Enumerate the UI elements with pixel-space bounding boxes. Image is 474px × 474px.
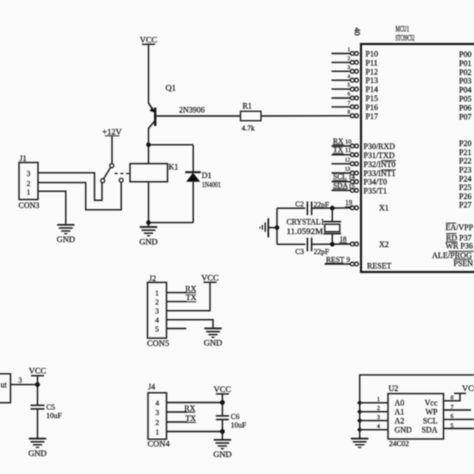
svg-text:CON3: CON3 [19, 201, 40, 210]
svg-text:P34/T0: P34/T0 [364, 178, 388, 187]
svg-text:C2: C2 [295, 200, 304, 209]
MCU pin label WR P36 [446, 242, 473, 251]
wire C5 bottom lead [37, 409, 39, 439]
svg-text:4: 4 [155, 316, 159, 325]
svg-text:3: 3 [377, 415, 380, 421]
svg-text:2N3906: 2N3906 [179, 105, 205, 114]
wire U2 pin 2 [360, 406, 388, 412]
wire crystal top stub [331, 208, 333, 222]
svg-text:2: 2 [348, 56, 351, 62]
svg-text:P14: P14 [366, 85, 378, 94]
ground below relay [139, 223, 157, 247]
MCU pin label P22 [459, 157, 471, 166]
node U2 pin 1 junction [357, 400, 362, 405]
power symbol VCC (J2) [201, 272, 219, 282]
svg-text:Vcc: Vcc [425, 399, 438, 408]
wire U2 pin 1 [360, 397, 388, 403]
MCU pin 1 P10 wire stub [332, 47, 378, 58]
svg-text:P13: P13 [366, 76, 378, 85]
svg-text:P32/INT0: P32/INT0 [364, 160, 396, 169]
svg-text:2: 2 [155, 297, 159, 306]
MCU pin label P03 [459, 77, 471, 86]
switch contact left [101, 179, 105, 183]
wire J2 pin2 TX [167, 301, 187, 303]
connector J4 CON4 [148, 383, 171, 449]
svg-text:WR P36: WR P36 [446, 242, 473, 251]
svg-text:GND: GND [204, 338, 222, 348]
svg-text:P10: P10 [366, 50, 378, 59]
svg-text:P06: P06 [459, 103, 471, 112]
MCU pin label P26 [459, 192, 471, 201]
wire +12V to switch [111, 136, 113, 164]
wire J2 pin1 RX [167, 292, 187, 294]
svg-text:R1: R1 [243, 102, 252, 111]
svg-text:STC89C52: STC89C52 [396, 34, 415, 43]
svg-text:P16: P16 [366, 103, 378, 112]
resistor R1 4.7k [241, 102, 262, 133]
node X2 crystal junction [330, 242, 335, 247]
MCU pin 15 P35/T1 [332, 181, 388, 196]
svg-text:3: 3 [155, 307, 159, 316]
wire J4 pin4 to VCC node [167, 402, 223, 404]
wire C5 top lead [37, 385, 39, 406]
svg-text:A0: A0 [395, 399, 405, 408]
wire D1 top drop [192, 145, 194, 172]
svg-text:C3: C3 [295, 247, 304, 256]
MCU pin label P00 [459, 50, 471, 59]
svg-text:P02: P02 [459, 68, 471, 77]
wire J2 pin3 to VCC [167, 282, 211, 310]
svg-text:14: 14 [349, 174, 356, 181]
svg-text:RX: RX [185, 284, 196, 293]
capacitor C5 10uF [31, 403, 62, 420]
svg-text:A2: A2 [395, 416, 405, 425]
svg-text:5: 5 [348, 83, 351, 89]
svg-text:1: 1 [348, 47, 351, 53]
svg-text:RX: RX [184, 404, 195, 413]
wire J1 pin2 to switch right contact [38, 182, 121, 210]
MCU pin 13 P33/INT1 [332, 167, 397, 178]
MCU pin label P24 [459, 174, 471, 183]
svg-text:VCC: VCC [201, 272, 219, 282]
power symbol VCC (C5) [29, 366, 47, 376]
ground for U2 [351, 439, 368, 448]
svg-text:GND: GND [57, 234, 75, 244]
wire to ground (J4) [221, 432, 223, 440]
svg-text:X2: X2 [379, 240, 389, 249]
MCU pin label P23 [459, 166, 471, 175]
capacitor C2 22pF [295, 200, 329, 216]
MCU pin label P27 [459, 201, 471, 210]
net label RX (J4) [184, 404, 196, 413]
wire C6 top lead [221, 403, 223, 416]
svg-text:CON5: CON5 [147, 338, 169, 348]
wire regulator pin3 to VCC node [11, 376, 38, 384]
switch contact right [119, 178, 123, 182]
wire U2 pin 4 [360, 424, 388, 430]
svg-text:D1: D1 [202, 171, 212, 180]
svg-text:SDA: SDA [421, 425, 437, 434]
wire C2 to X1 [312, 207, 351, 209]
MCU pin label P01 [459, 59, 471, 68]
svg-text:3: 3 [155, 408, 159, 417]
svg-text:1: 1 [155, 288, 159, 297]
net label +12V [102, 126, 122, 136]
voltage regulator (partial, Vout) [0, 374, 11, 403]
svg-text:ut: ut [1, 381, 8, 390]
wire J4 pin1 to C6 bottom node [167, 431, 223, 433]
MCU pin 3 P12 wire stub [332, 65, 378, 76]
svg-text:19: 19 [345, 199, 353, 207]
wire VCC stub (J4) [221, 394, 223, 403]
MCU pin 9 RESET with net label REST [325, 255, 392, 271]
svg-text:15: 15 [349, 183, 356, 190]
svg-text:12: 12 [345, 157, 351, 163]
svg-text:SCL: SCL [423, 416, 438, 425]
diode D1 1N4001 [185, 171, 221, 189]
svg-text:P22: P22 [459, 157, 471, 166]
wire J1 pin3 to switch left contact [38, 173, 102, 201]
switch arm [104, 167, 111, 178]
svg-text:VCC: VCC [214, 384, 232, 394]
svg-text:CON4: CON4 [148, 438, 171, 448]
node VCC junction (C5) [35, 382, 40, 387]
svg-text:P04: P04 [459, 86, 471, 95]
wire gnd to C3 [277, 243, 305, 245]
MCU pin 6 P15 wire stub [332, 92, 378, 103]
MCU pin 18 X2 [339, 235, 388, 249]
svg-text:P12: P12 [366, 67, 378, 76]
MCU pin label P20 [459, 139, 471, 148]
svg-text:6: 6 [348, 92, 351, 98]
svg-text:SCL: SCL [333, 172, 347, 181]
svg-text:P27: P27 [459, 201, 471, 210]
svg-text:3: 3 [348, 65, 351, 71]
svg-text:P21: P21 [459, 148, 471, 157]
wire D1 bottom drop [192, 182, 194, 223]
svg-text:CRYSTAL1: CRYSTAL1 [287, 218, 325, 227]
svg-text:TX: TX [186, 293, 197, 302]
svg-text:18: 18 [340, 235, 348, 243]
svg-text:2: 2 [377, 406, 380, 412]
svg-text:P01: P01 [459, 59, 471, 68]
svg-text:P20: P20 [459, 139, 471, 148]
svg-text:P00: P00 [459, 50, 471, 59]
MCU pin label ALE/PROG [432, 251, 474, 260]
power symbol VCC (U2) [454, 383, 474, 393]
wire node to D1 top [149, 144, 194, 146]
svg-text:10uF: 10uF [46, 411, 61, 420]
svg-text:RESET: RESET [367, 262, 392, 271]
MCU pin label P21 [459, 148, 471, 157]
svg-text:P17: P17 [366, 112, 378, 121]
MCU pin label P04 [459, 86, 471, 95]
svg-text:Q1: Q1 [166, 83, 176, 93]
svg-text:5: 5 [451, 423, 454, 429]
svg-text:P11: P11 [366, 58, 378, 67]
wire J4 pin2 TX [167, 421, 187, 423]
MCU pin label PSEN [454, 259, 474, 268]
svg-text:8: 8 [451, 396, 454, 402]
svg-text:7: 7 [451, 405, 454, 411]
relay K1 coil [130, 163, 178, 182]
pin 40 number label (rotated) [353, 28, 362, 36]
ground for J1 [57, 225, 75, 244]
svg-text:10uF: 10uF [231, 420, 246, 429]
MCU pin 4 P13 wire stub [332, 74, 378, 85]
svg-text:TX: TX [333, 145, 344, 154]
node U2 pin 3 junction [357, 418, 362, 423]
MCU pin label RD P37 [446, 233, 472, 242]
MCU pin 5 P14 wire stub [332, 83, 378, 94]
svg-text:P35/T1: P35/T1 [364, 186, 388, 195]
MCU pin label P02 [459, 68, 471, 77]
MCU pin label EA/VPP [446, 223, 474, 232]
svg-text:A1: A1 [395, 407, 405, 416]
svg-text:7: 7 [348, 101, 351, 107]
svg-text:P33/INT1: P33/INT1 [364, 169, 396, 178]
ground (sideways) for crystal caps [260, 218, 275, 237]
capacitor C3 22pF [295, 238, 329, 256]
svg-text:9: 9 [347, 256, 351, 264]
MCU pin label P05 [459, 95, 471, 104]
wire U2 top rail [360, 375, 474, 438]
svg-text:4: 4 [348, 74, 351, 80]
wire VCC to Q1 emitter [148, 44, 150, 103]
svg-text:P25: P25 [459, 183, 471, 192]
MCU pin 10 P30/RXD [332, 136, 396, 151]
wire R1 to MCU pin 8 P17 [261, 115, 351, 117]
svg-text:PSEN: PSEN [454, 259, 474, 268]
wire J2 pin4 to ground [167, 320, 214, 329]
svg-text:P03: P03 [459, 77, 471, 86]
wire C3 to X2 [312, 243, 351, 245]
MCU pin 2 P11 wire stub [332, 56, 378, 67]
svg-text:TX: TX [185, 414, 196, 423]
wire U2 pin 6 SCL [444, 414, 474, 420]
svg-text:RX: RX [333, 136, 344, 145]
svg-text:P23: P23 [459, 166, 471, 175]
ground for C5 [28, 439, 46, 458]
EEPROM U2 24C02 [388, 384, 444, 448]
node VCC junction (J4/C6) [220, 400, 225, 405]
svg-text:2: 2 [27, 179, 31, 188]
svg-text:GND: GND [139, 236, 157, 246]
svg-text:2: 2 [155, 418, 159, 427]
svg-text:3: 3 [27, 169, 31, 178]
svg-text:GND: GND [28, 448, 46, 458]
svg-text:22pF: 22pF [314, 247, 329, 256]
svg-text:1: 1 [155, 427, 159, 436]
svg-text:P31/TXD: P31/TXD [364, 151, 395, 160]
svg-text:4: 4 [155, 398, 159, 407]
connector J1 CON3 [19, 154, 40, 210]
svg-text:5: 5 [155, 324, 159, 333]
svg-text:1: 1 [377, 397, 380, 403]
svg-text:P26: P26 [459, 192, 471, 201]
svg-text:40: 40 [353, 28, 362, 36]
wire J2 pin5 stub [167, 328, 187, 330]
svg-text:EA/VPP: EA/VPP [446, 223, 474, 232]
wire U2 pin 8 Vcc [444, 393, 461, 401]
svg-text:X1: X1 [379, 204, 389, 213]
svg-text:1: 1 [27, 188, 31, 197]
MCU pin 11 P31/TXD [332, 145, 395, 160]
MCU pin 12 P32/INT0 [332, 157, 397, 168]
ground for J2 [204, 328, 222, 347]
svg-text:24C02: 24C02 [389, 439, 409, 448]
wire bottom node to D1 [149, 222, 194, 224]
transistor Q1 2N3906 (PNP) [149, 83, 205, 129]
wire J1 pin1 to ground [38, 191, 66, 225]
connector J2 CON5 [147, 274, 169, 348]
wire relay coil bottom [148, 182, 150, 223]
node C6 bottom junction [220, 429, 225, 434]
power symbol VCC (above Q1) [140, 34, 158, 44]
net label RX (J2) [185, 284, 197, 293]
svg-text:GND: GND [213, 449, 231, 459]
MCU pin 14 P34/T0 [332, 172, 388, 187]
svg-text:GND: GND [395, 425, 413, 434]
crystal Y1 CRYSTAL1 11.0592M [287, 218, 342, 236]
power symbol VCC (J4) [214, 384, 232, 394]
svg-text:3: 3 [19, 376, 23, 384]
svg-text:10: 10 [345, 138, 352, 145]
MCU pin label P07 [459, 112, 471, 121]
net label TX (J2) [185, 293, 196, 302]
svg-text:P05: P05 [459, 95, 471, 104]
MCU pin 8 P17 [348, 109, 378, 120]
wire crystal gnd vertical [276, 208, 278, 244]
svg-text:VCC: VCC [140, 34, 158, 44]
svg-text:P07: P07 [459, 112, 471, 121]
switch SW contact common [110, 164, 114, 168]
svg-text:6: 6 [451, 414, 454, 420]
wire gnd to C2 [277, 207, 305, 209]
svg-text:P15: P15 [366, 94, 378, 103]
node X1 crystal junction [330, 206, 335, 211]
svg-text:K1: K1 [169, 163, 179, 172]
wire Q1 base to R1 [156, 115, 241, 117]
node U2 pin 4 junction [357, 427, 362, 432]
ground for J4/C6 [213, 440, 231, 459]
wire relay coil top [148, 145, 150, 164]
wire J4 pin3 RX [167, 411, 187, 413]
svg-text:J1: J1 [20, 154, 27, 163]
svg-text:11: 11 [345, 147, 351, 154]
wire U2 pin 7 WP [444, 405, 472, 411]
svg-text:+12V: +12V [102, 126, 122, 136]
svg-text:8: 8 [348, 109, 351, 115]
net label TX (J4) [185, 414, 196, 423]
node collector junction [146, 143, 151, 148]
node crystal gnd junction [275, 225, 280, 230]
svg-text:4.7k: 4.7k [242, 123, 255, 132]
MCU U1 (MCU1 STC89C52) body [361, 25, 474, 273]
MCU pin 19 X1 [345, 199, 389, 212]
node U2 pin 2 junction [357, 409, 362, 414]
wire C6 bottom lead [221, 420, 223, 432]
svg-text:REST: REST [326, 255, 345, 264]
dashed actuator link to K1 [115, 173, 131, 175]
wire U2 pin 3 [360, 415, 388, 421]
svg-text:P24: P24 [459, 174, 471, 183]
node relay bottom junction [146, 220, 151, 225]
wire VCC stub (C5) [37, 376, 39, 385]
wire crystal bottom stub [331, 234, 333, 245]
svg-text:VCC: VCC [29, 366, 47, 376]
MCU pin label P06 [459, 103, 471, 112]
svg-text:WP: WP [426, 407, 439, 416]
capacitor C6 10uF [216, 412, 246, 429]
svg-text:J4: J4 [148, 383, 155, 392]
svg-text:SDA: SDA [333, 181, 349, 190]
MCU pin label P25 [459, 183, 471, 192]
svg-text:P30/RXD: P30/RXD [364, 142, 396, 151]
svg-text:11.0592M: 11.0592M [287, 227, 324, 236]
svg-text:4: 4 [377, 424, 380, 430]
svg-text:MCU1: MCU1 [396, 25, 410, 34]
wire Q1 collector down to node [148, 128, 150, 145]
svg-text:U2: U2 [389, 384, 399, 393]
svg-text:VCC: VCC [462, 383, 474, 393]
MCU pin 7 P16 wire stub [332, 101, 378, 112]
wire U2 pin 5 SDA [444, 423, 474, 429]
svg-text:1N4001: 1N4001 [202, 180, 221, 189]
